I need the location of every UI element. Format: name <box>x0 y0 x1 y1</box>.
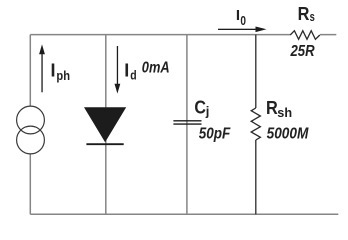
svg-text:50pF: 50pF <box>199 126 232 143</box>
resistor Rs (horizontal zigzag) <box>290 31 320 40</box>
arrow Id (down) <box>115 46 121 94</box>
label Rsh <box>266 98 292 120</box>
wire left branch lower segment <box>29 154 31 214</box>
arrow I0 (right) <box>218 27 267 33</box>
svg-text:R: R <box>266 98 278 118</box>
svg-text:0: 0 <box>240 13 246 28</box>
svg-text:25R: 25R <box>290 43 315 60</box>
label Iph <box>51 61 71 84</box>
arrow Iph (up) <box>39 44 45 92</box>
label Rs <box>298 4 315 24</box>
label I0 <box>236 7 246 28</box>
label Cj <box>194 98 209 119</box>
svg-text:ph: ph <box>56 68 70 83</box>
svg-text:sh: sh <box>277 105 292 120</box>
svg-text:j: j <box>205 104 210 119</box>
wire diode branch <box>105 35 107 215</box>
current source Iph (two overlapping circles) <box>17 106 45 154</box>
capacitor Cj plates <box>173 121 201 124</box>
wire capacitor branch <box>186 35 188 215</box>
wire top rail <box>30 34 290 36</box>
label Id <box>124 61 137 83</box>
wire bottom rail <box>30 213 338 215</box>
svg-text:I: I <box>124 61 129 81</box>
svg-text:R: R <box>298 4 310 24</box>
svg-text:0mA: 0mA <box>142 60 170 77</box>
svg-text:5000M: 5000M <box>267 126 309 143</box>
svg-text:I: I <box>51 61 56 81</box>
wire left branch upper segment <box>29 35 31 107</box>
diode D (triangle + bar) <box>84 107 126 144</box>
svg-text:d: d <box>130 68 136 83</box>
resistor Rsh (vertical zigzag) <box>251 108 260 140</box>
svg-text:C: C <box>194 98 206 118</box>
svg-text:s: s <box>310 9 315 24</box>
resistor Rsh branch lower lead <box>255 140 257 214</box>
resistor Rsh branch upper lead <box>255 35 257 108</box>
wire output lead after Rs <box>320 34 336 36</box>
